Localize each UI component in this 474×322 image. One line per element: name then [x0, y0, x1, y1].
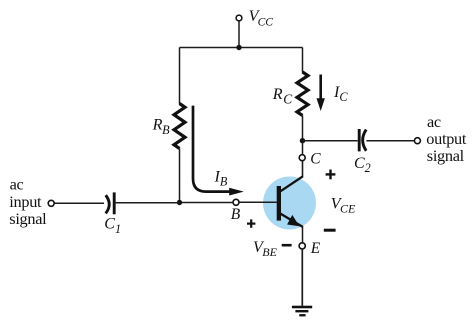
node VCC terminal: [236, 15, 242, 21]
wire base lead: [239, 201, 277, 203]
svg-text:input: input: [9, 192, 42, 211]
ground: [292, 306, 312, 317]
svg-text:signal: signal: [9, 209, 47, 228]
wire base left segment: [180, 202, 234, 204]
svg-text:E: E: [310, 240, 321, 257]
arrow IC: [317, 75, 325, 112]
wire left branch upper: [179, 48, 181, 105]
label plus at collector: [326, 170, 336, 180]
wire collector node stub: [302, 141, 304, 155]
transistor Q1 body highlight: [263, 177, 316, 230]
wire VCC stub: [238, 21, 240, 48]
svg-text:B: B: [231, 206, 241, 223]
resistor RC: [297, 72, 308, 116]
node E terminal: [299, 243, 305, 249]
wire left branch lower: [179, 149, 181, 203]
svg-text:ac: ac: [10, 175, 24, 194]
node B terminal: [233, 199, 239, 205]
wire collector lead: [302, 161, 304, 177]
label ac input signal: [9, 175, 47, 229]
wire output left segment: [303, 140, 358, 142]
capacitor C1: [106, 192, 115, 214]
wire right branch upper: [302, 48, 304, 73]
svg-text:C: C: [310, 150, 321, 167]
svg-text:signal: signal: [427, 146, 465, 165]
wire emitter lead: [302, 227, 304, 243]
label minus at VBE: [282, 244, 292, 247]
wire after C1: [116, 202, 180, 204]
arrow IB: [193, 106, 244, 196]
resistor RB: [174, 104, 185, 149]
transistor Q1 symbol: [277, 176, 303, 227]
wire output right segment: [366, 140, 414, 142]
label plus at base: [247, 219, 255, 227]
wire to ground: [301, 249, 303, 306]
node C terminal: [299, 155, 305, 161]
label ac output signal: [426, 112, 467, 165]
node input terminal: [48, 200, 54, 206]
capacitor C2: [359, 129, 366, 151]
wire top rail: [180, 47, 303, 49]
wire input segment: [54, 202, 104, 204]
node junction dot collector branch: [300, 138, 305, 143]
label minus at emitter right: [324, 229, 336, 232]
node junction dot base: [177, 200, 182, 205]
node output terminal: [414, 138, 420, 144]
node junction dot top: [236, 45, 241, 50]
wire right branch lower: [302, 116, 304, 141]
